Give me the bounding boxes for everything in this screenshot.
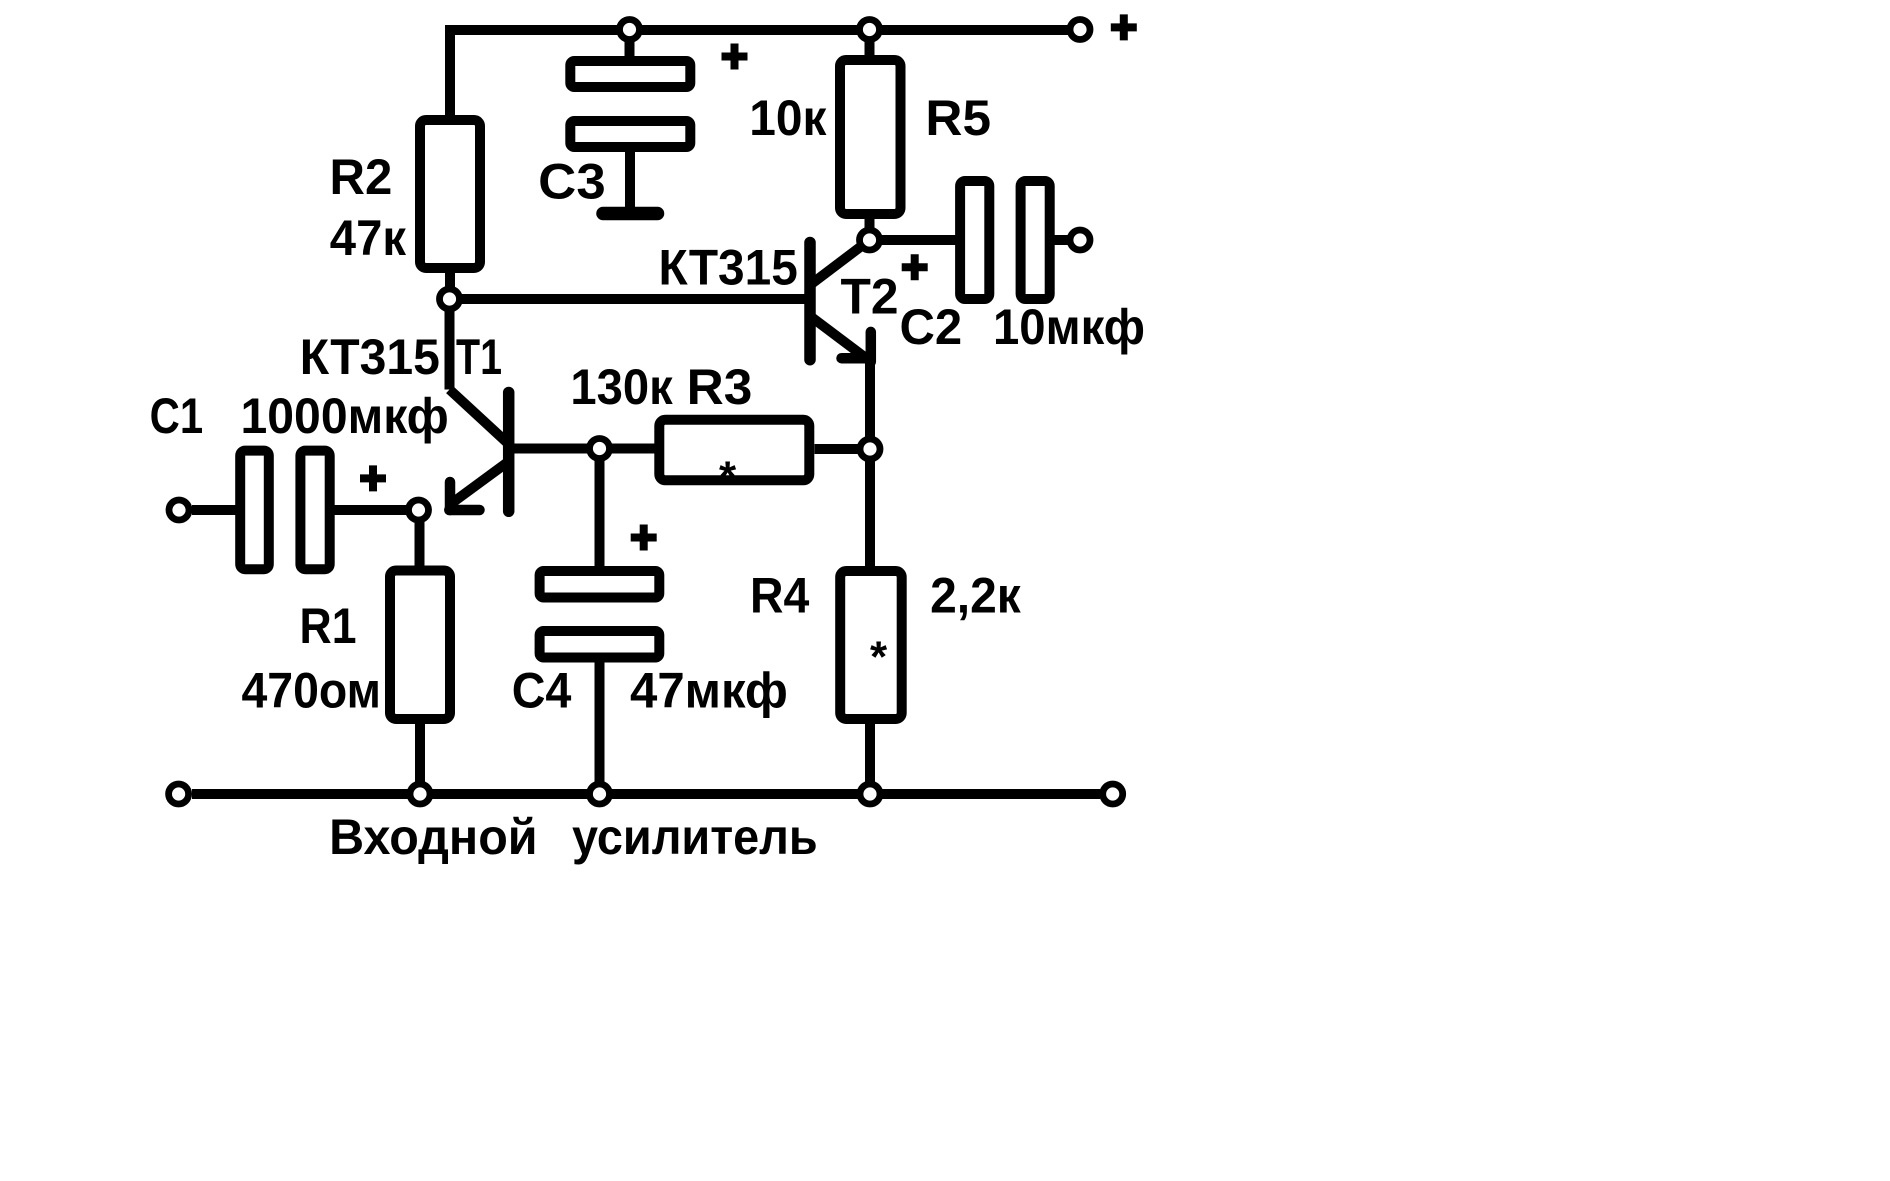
transistor T2 emitter arrowhead (866, 332, 877, 362)
wire node down to T1 collector (445, 299, 455, 390)
plus sign C4 (631, 525, 657, 551)
svg-text:C1: C1 (150, 388, 204, 444)
plus sign C3 (722, 44, 748, 70)
node R1 bottom (410, 784, 430, 804)
svg-text:Входной: Входной (329, 809, 537, 865)
capacitor C2 plates (960, 181, 989, 299)
wire T1 base lead to R3 (509, 444, 655, 454)
svg-text:R4: R4 (750, 567, 809, 623)
wire collector node to C2 (870, 235, 958, 245)
svg-text:10мкф: 10мкф (993, 299, 1145, 355)
svg-text:усилитель: усилитель (572, 809, 818, 865)
transistor T1 emitter diagonal (450, 462, 509, 505)
svg-text:470ом: 470ом (242, 663, 382, 719)
node on rail above R5 (860, 20, 880, 40)
resistor R3 (659, 420, 809, 481)
svg-text:130к: 130к (570, 359, 673, 415)
svg-text:C4: C4 (512, 663, 572, 719)
resistor R1 (390, 571, 450, 720)
wire R2 bottom to node (445, 273, 455, 299)
resistor R2 (420, 120, 480, 268)
svg-text:2,2к: 2,2к (930, 567, 1022, 623)
wire T2 emitter down to node and R4 (865, 360, 875, 794)
svg-text:R3: R3 (687, 359, 753, 415)
svg-text:47мкф: 47мкф (630, 663, 788, 719)
svg-text:10к: 10к (749, 90, 827, 146)
bottom-left terminal (169, 784, 189, 804)
wire R5 to collector node (865, 215, 875, 240)
svg-text:1000мкф: 1000мкф (241, 388, 449, 444)
svg-text:КТ315: КТ315 (659, 240, 798, 296)
transistor T2 collector diagonal (810, 240, 870, 285)
node T1 base / R3 / C4 (590, 439, 610, 459)
bottom-right terminal (1103, 784, 1123, 804)
svg-text:47к: 47к (330, 210, 407, 266)
resistor R5 (840, 60, 901, 214)
plus sign power rail (1111, 14, 1137, 40)
wire C2 to output terminal (1055, 235, 1071, 245)
svg-text:КТ315: КТ315 (300, 329, 440, 385)
capacitor C1 plates (240, 451, 269, 570)
transistor T1 emitter arrowhead (445, 482, 456, 510)
input terminal (169, 500, 189, 520)
node R4 bottom (860, 784, 880, 804)
wire emitter node down to R1 (415, 510, 426, 794)
wire rail to C3 (625, 30, 635, 60)
wire top rail with drop to R2 (450, 30, 1070, 115)
resistor R4 (840, 571, 902, 719)
svg-text:T2: T2 (841, 269, 899, 325)
svg-text:T1: T1 (456, 329, 502, 385)
svg-text:R2: R2 (330, 149, 393, 205)
node R3 / R4 / T2 emitter (860, 439, 880, 459)
transistor T2 emitter diagonal (810, 316, 871, 362)
wire C4 stem (595, 449, 605, 794)
plus sign C2 (902, 254, 928, 280)
wire bottom rail (192, 789, 1100, 799)
wire node to T2 base (450, 294, 811, 304)
node below R2 (440, 289, 460, 309)
wire rail to R5 (865, 30, 875, 60)
transistor T2 base bar (804, 243, 816, 360)
wire input terminal to C1 (192, 505, 237, 515)
svg-text:C2: C2 (900, 299, 963, 355)
capacitor C4 plates (540, 571, 660, 598)
svg-text:*: * (870, 633, 888, 682)
plus sign C1 (360, 465, 386, 491)
capacitor C3 plates (570, 61, 690, 87)
output terminal (1070, 230, 1090, 250)
capacitor C3 lower stem and end bar (625, 152, 635, 208)
wire C1 to emitter node (335, 505, 419, 515)
svg-text:R5: R5 (925, 90, 991, 146)
node T2 collector (860, 230, 880, 250)
node C4 bottom (590, 784, 610, 804)
power terminal + (1070, 20, 1090, 40)
svg-text:C3: C3 (538, 153, 606, 209)
transistor T1 base bar (503, 393, 515, 512)
wire R3 to feedback node (815, 444, 871, 454)
transistor T1 collector diagonal (450, 390, 509, 445)
node input / T1 emitter / R1 (409, 500, 429, 520)
node on rail above C3 (620, 20, 640, 40)
svg-text:*: * (719, 453, 737, 502)
svg-text:R1: R1 (300, 598, 357, 654)
